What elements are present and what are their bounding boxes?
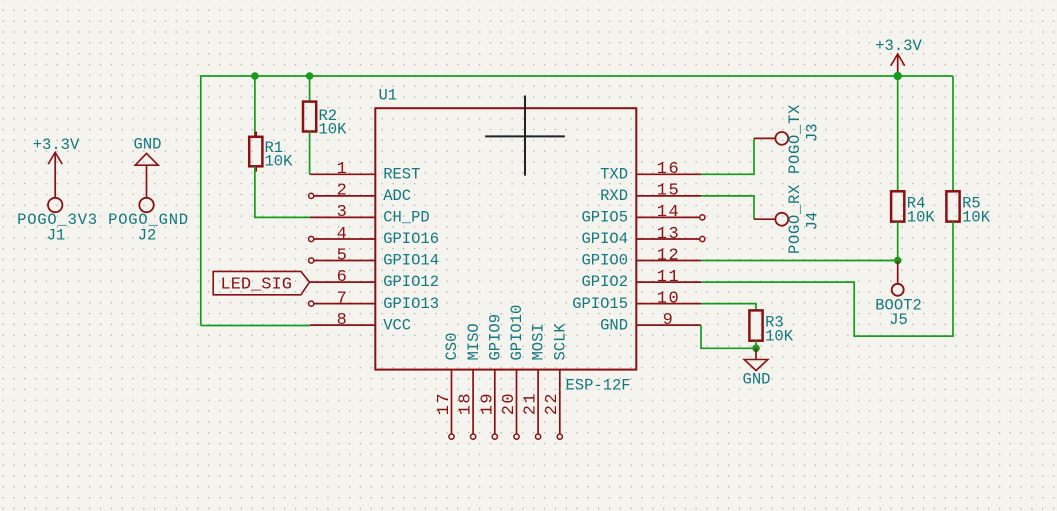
- global label LED_SIG: [213, 271, 309, 294]
- svg-text:8: 8: [337, 311, 349, 330]
- wire GPIO15 to R3 top: [701, 304, 756, 311]
- svg-text:4: 4: [337, 225, 349, 244]
- svg-text:GPIO5: GPIO5: [581, 209, 628, 227]
- resistor R2: [303, 102, 316, 132]
- wire R3 bottom: [755, 341, 757, 349]
- antenna cross graphic: [485, 96, 565, 176]
- pin 8 VCC: [310, 311, 411, 334]
- op U1 body: [375, 108, 636, 369]
- svg-text:POGO_TX: POGO_TX: [786, 104, 804, 174]
- connector J4 pin lead: [754, 218, 775, 220]
- wire R4 top: [897, 76, 899, 191]
- svg-text:J4: J4: [804, 212, 822, 231]
- pin 17 CS0: [435, 333, 461, 440]
- svg-text:GPIO13: GPIO13: [383, 295, 439, 313]
- pin 1 REST: [310, 160, 421, 183]
- connector J4 pad: [775, 213, 788, 226]
- svg-text:RXD: RXD: [600, 187, 628, 205]
- svg-text:17: 17: [435, 392, 454, 415]
- pin 18 MISO: [457, 323, 483, 439]
- svg-text:CH_PD: CH_PD: [383, 209, 430, 227]
- wire top +3.3V rail: [201, 76, 953, 326]
- connector J5 pad: [892, 284, 904, 296]
- svg-text:5: 5: [337, 246, 349, 265]
- value label R1 10K: [265, 139, 294, 171]
- svg-text:GND: GND: [743, 371, 771, 389]
- svg-text:12: 12: [657, 246, 680, 265]
- connector J1 pad: [48, 198, 62, 212]
- pin 9 GND: [600, 311, 701, 334]
- pin 4 GPIO16: [309, 225, 439, 248]
- svg-text:GPIO0: GPIO0: [581, 252, 628, 270]
- svg-text:2: 2: [337, 182, 349, 201]
- svg-text:GPIO9: GPIO9: [486, 314, 504, 361]
- pin 10 GPIO15: [572, 289, 701, 312]
- pin 5 GPIO14: [309, 246, 439, 269]
- svg-text:TXD: TXD: [600, 166, 628, 184]
- svg-text:LED_SIG: LED_SIG: [221, 276, 292, 295]
- svg-text:GND: GND: [600, 316, 628, 334]
- svg-text:CS0: CS0: [443, 333, 461, 361]
- svg-text:10K: 10K: [765, 327, 794, 345]
- svg-text:16: 16: [657, 160, 680, 179]
- svg-text:20: 20: [500, 392, 519, 415]
- pin 13 GPIO4: [581, 225, 704, 248]
- wire GND pin 9 to R3 bottom: [701, 325, 756, 348]
- resistor R5: [946, 191, 959, 221]
- svg-text:10K: 10K: [962, 208, 991, 226]
- pin 20 GPIO10: [500, 305, 526, 440]
- svg-text:+3.3V: +3.3V: [875, 37, 922, 55]
- svg-text:REST: REST: [383, 166, 420, 184]
- power +3.3V at J1: [48, 152, 62, 197]
- junction at R2/rail: [306, 72, 314, 80]
- svg-text:SCLK: SCLK: [551, 323, 569, 361]
- ground symbol at R3: [744, 348, 768, 370]
- pin 14 GPIO5: [581, 203, 704, 226]
- value label R2 10K: [319, 107, 348, 139]
- svg-text:13: 13: [657, 225, 680, 244]
- svg-text:1: 1: [337, 160, 349, 179]
- value label R5 10K: [962, 195, 991, 227]
- pin 7 GPIO13: [309, 289, 439, 312]
- pin 11 GPIO2: [581, 268, 701, 291]
- value label R3 10K: [765, 314, 794, 346]
- pin 15 RXD: [600, 182, 701, 205]
- connector J5 lead: [897, 261, 899, 284]
- resistor R1: [249, 132, 262, 172]
- resistor R4: [891, 191, 904, 221]
- svg-text:21: 21: [522, 392, 541, 415]
- svg-text:15: 15: [657, 182, 680, 201]
- svg-text:10K: 10K: [265, 153, 294, 171]
- svg-text:19: 19: [478, 392, 497, 415]
- svg-text:MOSI: MOSI: [530, 323, 548, 360]
- svg-text:6: 6: [337, 268, 349, 287]
- svg-text:J3: J3: [804, 123, 822, 142]
- svg-text:3: 3: [337, 203, 349, 222]
- svg-text:+3.3V: +3.3V: [33, 136, 80, 154]
- junction at R1/rail: [251, 72, 259, 80]
- wire R5 bottom to GPIO2: [701, 222, 953, 337]
- junction R3/GND: [752, 345, 760, 353]
- svg-text:GPIO4: GPIO4: [581, 230, 628, 248]
- svg-text:GPIO2: GPIO2: [581, 273, 628, 291]
- pin 6 GPIO12: [310, 268, 439, 291]
- svg-text:14: 14: [657, 203, 680, 222]
- svg-text:18: 18: [457, 392, 476, 415]
- svg-text:GPIO10: GPIO10: [508, 305, 526, 361]
- svg-text:22: 22: [543, 392, 562, 415]
- wire TXD to J3: [701, 138, 754, 174]
- wire GPIO0 to R4 bottom: [701, 260, 898, 262]
- junction +3.3V/rail: [894, 72, 902, 80]
- svg-text:U1: U1: [379, 87, 398, 105]
- pin 21 MOSI: [522, 323, 548, 439]
- wire R5 top: [952, 76, 954, 191]
- pin 2 ADC: [309, 182, 412, 205]
- svg-text:ADC: ADC: [383, 187, 411, 205]
- wire RXD to J4: [701, 196, 754, 219]
- wire VCC feed to pin 8: [201, 325, 310, 327]
- svg-text:GPIO16: GPIO16: [383, 230, 439, 248]
- value label R4 10K: [907, 195, 936, 227]
- junction GPIO0/R4/J5: [894, 257, 902, 265]
- svg-text:10K: 10K: [907, 208, 936, 226]
- wire R2 bottom to REST pin 1: [309, 132, 311, 175]
- svg-text:POGO_RX: POGO_RX: [786, 184, 804, 254]
- pin 22 SCLK: [543, 323, 569, 440]
- svg-text:7: 7: [337, 289, 349, 308]
- svg-text:ESP-12F: ESP-12F: [566, 377, 631, 395]
- svg-text:GPIO12: GPIO12: [383, 273, 439, 291]
- pin 16 TXD: [600, 160, 701, 183]
- svg-text:GPIO15: GPIO15: [572, 295, 628, 313]
- connector J3 pin lead: [754, 137, 775, 139]
- wire R2 top: [309, 76, 311, 102]
- pin 19 GPIO9: [478, 314, 504, 439]
- connector J2 pad: [139, 198, 153, 212]
- svg-text:GPIO14: GPIO14: [383, 252, 439, 270]
- wire R1 top: [254, 76, 256, 137]
- svg-text:GND: GND: [134, 136, 162, 154]
- svg-text:J1: J1: [47, 226, 66, 244]
- pin 3 CH_PD: [310, 203, 430, 226]
- svg-text:MISO: MISO: [465, 323, 483, 360]
- svg-text:J5: J5: [889, 311, 908, 329]
- power +3.3V top: [891, 54, 905, 76]
- svg-text:VCC: VCC: [383, 316, 411, 334]
- svg-text:9: 9: [663, 311, 675, 330]
- svg-text:10: 10: [657, 289, 680, 308]
- svg-text:11: 11: [657, 268, 680, 287]
- resistor R3: [749, 310, 762, 340]
- wire R1 bottom to CH_PD: [255, 166, 310, 217]
- wire R4 bottom: [897, 222, 899, 261]
- pin 12 GPIO0: [581, 246, 701, 269]
- svg-text:10K: 10K: [319, 121, 348, 139]
- connector J3 pad: [775, 132, 788, 145]
- svg-text:J2: J2: [138, 226, 157, 244]
- ground symbol at J2 (flipped): [135, 153, 158, 197]
